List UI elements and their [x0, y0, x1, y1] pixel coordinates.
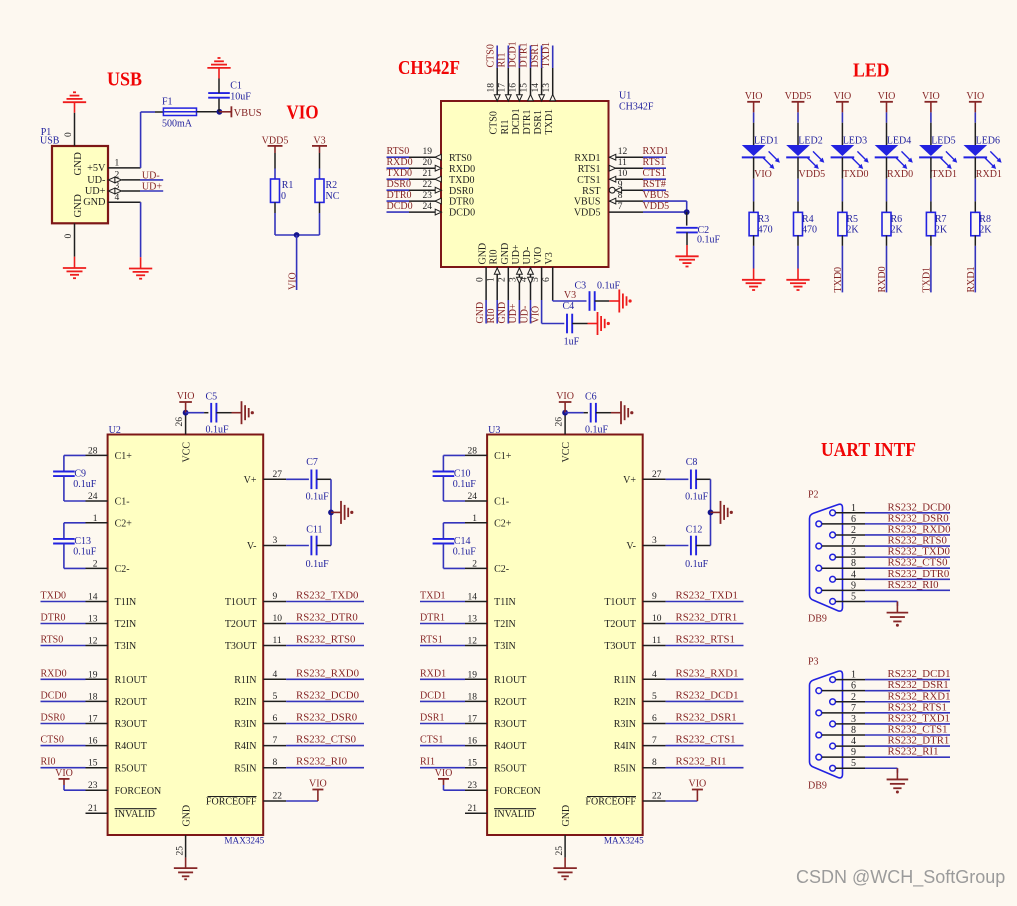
- svg-text:0.1uF: 0.1uF: [685, 492, 709, 503]
- svg-text:RST#: RST#: [643, 179, 666, 190]
- svg-text:TXD1: TXD1: [544, 109, 555, 135]
- svg-text:25: 25: [555, 846, 565, 856]
- svg-text:14: 14: [468, 593, 478, 603]
- svg-text:VCC: VCC: [561, 442, 572, 463]
- svg-text:0: 0: [281, 191, 286, 202]
- svg-text:DSR1: DSR1: [530, 43, 541, 67]
- svg-text:DTR1: DTR1: [522, 110, 533, 135]
- svg-text:CTS1: CTS1: [577, 175, 600, 186]
- svg-text:1uF: 1uF: [564, 336, 580, 347]
- svg-text:RXD0: RXD0: [387, 157, 413, 168]
- svg-text:T3IN: T3IN: [494, 641, 516, 652]
- svg-text:C7: C7: [306, 457, 318, 468]
- svg-text:19: 19: [88, 670, 98, 680]
- svg-text:UD+: UD+: [142, 182, 162, 193]
- svg-text:RI1: RI1: [420, 757, 435, 768]
- svg-text:RXD1: RXD1: [420, 668, 446, 679]
- svg-text:21: 21: [468, 804, 478, 814]
- svg-text:GND: GND: [500, 243, 511, 265]
- svg-text:6: 6: [273, 714, 278, 724]
- svg-text:5: 5: [851, 758, 856, 769]
- svg-text:LED2: LED2: [798, 136, 822, 147]
- svg-text:RS232_RTS1: RS232_RTS1: [676, 634, 735, 646]
- svg-text:4: 4: [273, 670, 278, 680]
- svg-text:RXD0: RXD0: [877, 266, 888, 292]
- svg-text:DCD0: DCD0: [41, 690, 67, 701]
- svg-text:24: 24: [88, 492, 98, 502]
- svg-text:RS232_DCD0: RS232_DCD0: [296, 689, 359, 701]
- svg-text:23: 23: [468, 781, 478, 791]
- svg-text:C2-: C2-: [115, 564, 130, 575]
- svg-text:7: 7: [652, 736, 657, 746]
- svg-text:P2: P2: [808, 490, 819, 501]
- svg-text:C1+: C1+: [494, 451, 512, 462]
- svg-text:C2-: C2-: [494, 564, 509, 575]
- svg-text:TXD0: TXD0: [41, 591, 67, 602]
- svg-text:0: 0: [64, 132, 74, 137]
- svg-text:C14: C14: [454, 536, 471, 547]
- svg-text:10: 10: [273, 614, 283, 624]
- svg-text:UD-: UD-: [87, 175, 106, 186]
- svg-text:VCC: VCC: [182, 442, 193, 463]
- svg-text:GND: GND: [72, 194, 84, 218]
- svg-text:U2: U2: [109, 425, 121, 436]
- svg-text:11: 11: [273, 636, 282, 646]
- svg-text:12: 12: [618, 147, 628, 157]
- svg-text:TXD1: TXD1: [420, 591, 446, 602]
- svg-text:13: 13: [88, 615, 98, 625]
- svg-text:VIO: VIO: [922, 91, 940, 102]
- svg-text:RI1: RI1: [497, 53, 508, 68]
- svg-text:LED3: LED3: [843, 136, 867, 147]
- svg-text:0.1uF: 0.1uF: [73, 546, 97, 557]
- svg-text:C10: C10: [454, 469, 471, 480]
- svg-text:V+: V+: [623, 475, 636, 486]
- svg-text:RXD1: RXD1: [643, 146, 669, 157]
- svg-text:C1+: C1+: [115, 451, 133, 462]
- svg-text:GND: GND: [478, 243, 489, 265]
- svg-text:11: 11: [652, 636, 661, 646]
- svg-text:UD+: UD+: [85, 186, 106, 197]
- svg-text:470: 470: [802, 225, 817, 236]
- svg-text:VDD5: VDD5: [262, 136, 289, 147]
- svg-text:27: 27: [652, 470, 662, 480]
- svg-text:7: 7: [273, 736, 278, 746]
- svg-text:RS232_TXD1: RS232_TXD1: [676, 590, 738, 602]
- svg-text:CH342F: CH342F: [398, 58, 460, 79]
- svg-text:VDD5: VDD5: [785, 91, 812, 102]
- svg-text:TXD0: TXD0: [833, 267, 844, 293]
- svg-text:11: 11: [618, 158, 627, 168]
- svg-text:VIO: VIO: [55, 768, 73, 779]
- svg-text:6: 6: [851, 514, 856, 525]
- svg-text:CH342F: CH342F: [619, 102, 654, 113]
- svg-text:CTS1: CTS1: [420, 735, 443, 746]
- svg-text:RS232_RTS0: RS232_RTS0: [296, 634, 355, 646]
- svg-text:INVALID: INVALID: [115, 809, 155, 820]
- svg-text:DSR1: DSR1: [533, 110, 544, 134]
- svg-text:FORCEON: FORCEON: [494, 786, 541, 797]
- svg-text:DTR1: DTR1: [519, 43, 530, 68]
- svg-text:0.1uF: 0.1uF: [453, 546, 477, 557]
- svg-text:RTS0: RTS0: [449, 153, 472, 164]
- svg-text:1: 1: [93, 514, 98, 524]
- svg-text:9: 9: [851, 580, 856, 591]
- svg-text:R3IN: R3IN: [234, 719, 256, 730]
- svg-text:T3OUT: T3OUT: [225, 641, 257, 652]
- svg-text:VIO: VIO: [309, 779, 327, 790]
- svg-text:C2+: C2+: [115, 518, 133, 529]
- svg-text:RS232_RXD1: RS232_RXD1: [676, 667, 739, 679]
- svg-text:7: 7: [851, 536, 856, 547]
- svg-text:LED5: LED5: [931, 136, 955, 147]
- svg-text:3: 3: [851, 547, 856, 558]
- svg-text:R5IN: R5IN: [234, 763, 256, 774]
- svg-text:RS232_DTR0: RS232_DTR0: [296, 612, 358, 624]
- svg-text:1: 1: [851, 670, 856, 681]
- svg-text:V3: V3: [564, 290, 576, 301]
- svg-text:R4OUT: R4OUT: [115, 741, 147, 752]
- svg-text:UART INTF: UART INTF: [821, 440, 916, 461]
- svg-text:V3: V3: [313, 136, 325, 147]
- svg-text:2: 2: [472, 559, 477, 569]
- svg-text:MAX3245: MAX3245: [604, 836, 644, 846]
- svg-text:6: 6: [542, 277, 552, 282]
- svg-text:TXD0: TXD0: [449, 175, 475, 186]
- svg-text:1: 1: [486, 277, 496, 282]
- svg-text:RST: RST: [582, 186, 600, 197]
- svg-text:RXD1: RXD1: [966, 266, 977, 292]
- svg-text:C11: C11: [306, 525, 322, 536]
- svg-text:CTS1: CTS1: [643, 168, 666, 179]
- svg-text:16: 16: [88, 737, 98, 747]
- svg-text:0.1uF: 0.1uF: [73, 479, 97, 490]
- svg-text:VIO: VIO: [435, 768, 453, 779]
- svg-text:RS232_RI1: RS232_RI1: [676, 756, 727, 768]
- svg-text:2: 2: [93, 559, 98, 569]
- svg-text:0.1uF: 0.1uF: [306, 492, 330, 503]
- svg-text:C6: C6: [585, 392, 597, 403]
- svg-text:1: 1: [472, 514, 477, 524]
- svg-text:DSR1: DSR1: [420, 713, 444, 724]
- svg-text:LED1: LED1: [754, 136, 778, 147]
- svg-text:R1IN: R1IN: [614, 675, 636, 686]
- svg-text:T3IN: T3IN: [115, 641, 137, 652]
- svg-text:RTS1: RTS1: [578, 164, 601, 175]
- svg-text:R4IN: R4IN: [234, 741, 256, 752]
- svg-text:RS232_RI1: RS232_RI1: [888, 746, 939, 758]
- svg-text:R4OUT: R4OUT: [494, 741, 526, 752]
- svg-text:C4: C4: [563, 301, 575, 312]
- svg-text:14: 14: [88, 593, 98, 603]
- svg-text:DCD0: DCD0: [387, 201, 413, 212]
- svg-text:RS232_RI0: RS232_RI0: [888, 579, 939, 591]
- svg-text:RTS1: RTS1: [420, 635, 443, 646]
- svg-text:CSDN @WCH_SoftGroup: CSDN @WCH_SoftGroup: [796, 867, 1005, 888]
- svg-text:+5V: +5V: [87, 163, 106, 174]
- svg-text:TXD0: TXD0: [843, 169, 869, 180]
- svg-text:C3: C3: [575, 280, 587, 291]
- svg-text:T2OUT: T2OUT: [225, 619, 257, 630]
- svg-text:DSR0: DSR0: [387, 179, 411, 190]
- svg-text:2K: 2K: [979, 225, 992, 236]
- svg-text:VIO: VIO: [754, 169, 772, 180]
- svg-text:LED4: LED4: [887, 136, 911, 147]
- svg-text:0.1uF: 0.1uF: [685, 559, 709, 570]
- svg-text:C8: C8: [686, 457, 698, 468]
- svg-text:R4IN: R4IN: [614, 741, 636, 752]
- svg-text:3: 3: [273, 536, 278, 546]
- svg-text:DSR0: DSR0: [449, 186, 473, 197]
- svg-text:T1IN: T1IN: [115, 597, 137, 608]
- svg-text:18: 18: [468, 692, 478, 702]
- svg-text:RXD0: RXD0: [887, 169, 913, 180]
- svg-text:28: 28: [88, 446, 98, 456]
- svg-text:UD-: UD-: [142, 170, 160, 181]
- svg-text:CTS0: CTS0: [489, 111, 500, 134]
- svg-text:3: 3: [652, 536, 657, 546]
- svg-text:2K: 2K: [846, 225, 859, 236]
- svg-text:R3IN: R3IN: [614, 719, 636, 730]
- svg-text:VIO: VIO: [533, 247, 544, 265]
- svg-text:6: 6: [652, 714, 657, 724]
- svg-text:19: 19: [423, 147, 433, 157]
- svg-text:T2IN: T2IN: [494, 619, 516, 630]
- svg-text:MAX3245: MAX3245: [224, 836, 264, 846]
- svg-text:T1OUT: T1OUT: [604, 597, 636, 608]
- svg-text:P3: P3: [808, 656, 819, 667]
- svg-text:NC: NC: [326, 191, 340, 202]
- svg-text:26: 26: [554, 417, 564, 427]
- svg-text:4: 4: [851, 736, 856, 747]
- svg-text:R2OUT: R2OUT: [494, 697, 526, 708]
- svg-text:470: 470: [758, 225, 773, 236]
- svg-text:4: 4: [652, 670, 657, 680]
- svg-text:8: 8: [851, 558, 856, 569]
- svg-text:GND: GND: [475, 302, 486, 324]
- svg-text:VIO: VIO: [177, 391, 195, 402]
- svg-text:VIO: VIO: [878, 91, 896, 102]
- svg-text:FORCEOFF: FORCEOFF: [206, 797, 257, 808]
- svg-text:USB: USB: [107, 70, 142, 91]
- svg-text:C1-: C1-: [115, 497, 130, 508]
- svg-text:9: 9: [652, 592, 657, 602]
- svg-text:23: 23: [423, 191, 433, 201]
- svg-text:GND: GND: [72, 152, 84, 176]
- svg-text:7: 7: [618, 202, 623, 212]
- svg-text:12: 12: [468, 637, 478, 647]
- svg-text:DCD1: DCD1: [511, 108, 522, 134]
- svg-text:V-: V-: [247, 541, 257, 552]
- svg-text:25: 25: [176, 846, 186, 856]
- svg-text:VIO: VIO: [287, 103, 319, 124]
- svg-text:2K: 2K: [935, 225, 948, 236]
- svg-text:RTS1: RTS1: [643, 157, 666, 168]
- svg-text:RI0: RI0: [489, 250, 500, 265]
- svg-text:VIO: VIO: [745, 91, 763, 102]
- svg-text:RI0: RI0: [41, 757, 56, 768]
- svg-text:RS232_TXD0: RS232_TXD0: [296, 590, 358, 602]
- svg-text:U1: U1: [619, 91, 631, 102]
- svg-text:R2OUT: R2OUT: [115, 697, 147, 708]
- svg-text:GND: GND: [83, 197, 106, 208]
- svg-text:R1IN: R1IN: [234, 675, 256, 686]
- svg-text:F1: F1: [162, 97, 173, 108]
- svg-text:8: 8: [273, 758, 278, 768]
- svg-text:16: 16: [468, 737, 478, 747]
- svg-text:V3: V3: [544, 252, 555, 264]
- svg-text:DSR0: DSR0: [41, 713, 65, 724]
- svg-text:VIO: VIO: [530, 306, 541, 324]
- svg-text:22: 22: [652, 792, 662, 802]
- svg-text:10: 10: [652, 614, 662, 624]
- svg-text:R1OUT: R1OUT: [494, 675, 526, 686]
- svg-text:18: 18: [88, 692, 98, 702]
- svg-text:2: 2: [851, 692, 856, 703]
- svg-text:TXD1: TXD1: [931, 169, 957, 180]
- svg-text:RS232_CTS0: RS232_CTS0: [296, 734, 356, 746]
- svg-text:RI0: RI0: [486, 309, 497, 324]
- svg-text:R5OUT: R5OUT: [115, 763, 147, 774]
- svg-text:C12: C12: [686, 525, 703, 536]
- svg-text:R2IN: R2IN: [614, 697, 636, 708]
- svg-text:R2IN: R2IN: [234, 697, 256, 708]
- svg-text:2: 2: [851, 525, 856, 536]
- svg-text:2K: 2K: [891, 225, 904, 236]
- svg-text:LED: LED: [853, 60, 890, 81]
- svg-text:R5: R5: [846, 214, 858, 225]
- svg-text:DTR0: DTR0: [41, 613, 66, 624]
- svg-text:TXD1: TXD1: [921, 267, 932, 293]
- svg-text:0.1uF: 0.1uF: [585, 425, 609, 436]
- svg-text:R3OUT: R3OUT: [115, 719, 147, 730]
- svg-text:5: 5: [531, 277, 541, 282]
- svg-text:21: 21: [423, 169, 433, 179]
- svg-text:T2OUT: T2OUT: [604, 619, 636, 630]
- svg-text:6: 6: [851, 681, 856, 692]
- svg-text:10: 10: [618, 169, 628, 179]
- svg-text:RS232_DCD1: RS232_DCD1: [676, 689, 739, 701]
- svg-text:VIO: VIO: [834, 91, 852, 102]
- svg-text:R7: R7: [935, 214, 947, 225]
- svg-text:7: 7: [851, 703, 856, 714]
- svg-text:R5IN: R5IN: [614, 763, 636, 774]
- svg-text:0: 0: [64, 234, 74, 239]
- svg-text:R4: R4: [802, 214, 814, 225]
- svg-text:T2IN: T2IN: [115, 619, 137, 630]
- svg-text:UD+: UD+: [511, 244, 522, 264]
- svg-text:RS232_CTS1: RS232_CTS1: [676, 734, 736, 746]
- svg-text:GND: GND: [182, 805, 193, 827]
- svg-text:VIO: VIO: [966, 91, 984, 102]
- svg-text:DB9: DB9: [808, 780, 827, 791]
- svg-text:R1OUT: R1OUT: [115, 675, 147, 686]
- svg-text:1: 1: [115, 159, 120, 169]
- svg-text:C1: C1: [230, 81, 242, 92]
- svg-text:VDD5: VDD5: [574, 208, 601, 219]
- svg-text:CTS0: CTS0: [41, 735, 64, 746]
- svg-text:RTS0: RTS0: [41, 635, 64, 646]
- svg-text:RXD1: RXD1: [574, 153, 600, 164]
- svg-text:R3OUT: R3OUT: [494, 719, 526, 730]
- svg-text:USB: USB: [40, 136, 60, 147]
- svg-text:R2: R2: [326, 180, 338, 191]
- svg-text:28: 28: [468, 446, 478, 456]
- svg-text:RXD0: RXD0: [449, 164, 475, 175]
- svg-text:FORCEOFF: FORCEOFF: [585, 797, 636, 808]
- svg-text:INVALID: INVALID: [494, 809, 534, 820]
- svg-text:VIO: VIO: [689, 779, 707, 790]
- svg-text:VBUS: VBUS: [643, 190, 670, 201]
- svg-text:4: 4: [851, 569, 856, 580]
- svg-text:V+: V+: [244, 475, 257, 486]
- svg-text:21: 21: [88, 804, 98, 814]
- svg-text:3: 3: [851, 714, 856, 725]
- svg-text:R1: R1: [282, 180, 294, 191]
- svg-text:13: 13: [542, 83, 552, 93]
- svg-text:14: 14: [531, 83, 541, 93]
- svg-text:8: 8: [851, 725, 856, 736]
- svg-text:RTS0: RTS0: [387, 146, 410, 157]
- svg-text:DCD0: DCD0: [449, 208, 475, 219]
- svg-text:VDD5: VDD5: [643, 201, 670, 212]
- svg-text:R6: R6: [891, 214, 903, 225]
- svg-text:24: 24: [423, 202, 433, 212]
- svg-text:V-: V-: [626, 541, 636, 552]
- svg-text:8: 8: [652, 758, 657, 768]
- svg-text:VBUS: VBUS: [574, 197, 601, 208]
- svg-text:UD-: UD-: [519, 306, 530, 324]
- svg-text:RXD1: RXD1: [976, 169, 1002, 180]
- svg-text:DTR1: DTR1: [420, 613, 445, 624]
- svg-text:15: 15: [520, 83, 530, 93]
- svg-text:RS232_DSR0: RS232_DSR0: [296, 712, 357, 724]
- svg-text:R5OUT: R5OUT: [494, 763, 526, 774]
- svg-text:RXD0: RXD0: [41, 668, 67, 679]
- svg-text:RI1: RI1: [500, 120, 511, 135]
- svg-text:1: 1: [851, 503, 856, 514]
- svg-text:RS232_RI0: RS232_RI0: [296, 756, 347, 768]
- svg-text:8: 8: [618, 191, 623, 201]
- svg-text:0.1uF: 0.1uF: [306, 559, 330, 570]
- svg-text:24: 24: [468, 492, 478, 502]
- svg-text:C9: C9: [74, 469, 86, 480]
- svg-text:R8: R8: [979, 214, 991, 225]
- svg-text:9: 9: [851, 747, 856, 758]
- svg-text:DTR0: DTR0: [387, 190, 412, 201]
- svg-text:0.1uF: 0.1uF: [597, 280, 621, 291]
- svg-text:0.1uF: 0.1uF: [697, 234, 721, 245]
- svg-text:17: 17: [88, 715, 98, 725]
- svg-text:18: 18: [486, 83, 496, 93]
- svg-text:23: 23: [88, 781, 98, 791]
- svg-text:T1OUT: T1OUT: [225, 597, 257, 608]
- svg-text:FORCEON: FORCEON: [115, 786, 162, 797]
- svg-text:VBUS: VBUS: [234, 108, 262, 119]
- svg-text:10uF: 10uF: [230, 92, 251, 103]
- svg-text:C13: C13: [74, 536, 91, 547]
- svg-text:UD+: UD+: [508, 303, 519, 323]
- svg-text:27: 27: [273, 470, 283, 480]
- svg-text:17: 17: [498, 83, 508, 93]
- svg-text:DTR0: DTR0: [449, 197, 474, 208]
- svg-text:2: 2: [498, 277, 508, 282]
- svg-text:20: 20: [423, 158, 433, 168]
- svg-text:GND: GND: [561, 805, 572, 827]
- svg-text:TXD0: TXD0: [387, 168, 413, 179]
- svg-text:22: 22: [273, 792, 283, 802]
- svg-text:VIO: VIO: [288, 272, 299, 290]
